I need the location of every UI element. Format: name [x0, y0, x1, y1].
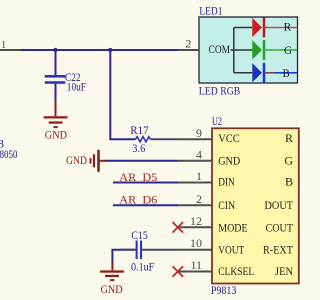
wire: main net to LED1 COM: [21, 49, 179, 51]
svg-text:G: G: [284, 154, 293, 168]
LED green element: [252, 40, 297, 60]
wire: down to C22: [55, 50, 57, 76]
svg-text:C15: C15: [131, 228, 147, 242]
LED blue element: [252, 63, 297, 83]
svg-text:GND: GND: [45, 128, 67, 142]
IC U2 P9813 body: [211, 114, 299, 297]
svg-text:P9813: P9813: [211, 283, 236, 297]
capacitor C22: [45, 70, 86, 93]
pin 1 DIN stub: [178, 169, 212, 183]
ground GND below C22: [44, 101, 68, 142]
wire: C15 left lead to ground corner: [112, 250, 135, 263]
pin 11 CLKSEL stub: [178, 258, 212, 272]
svg-text:R: R: [284, 20, 292, 34]
LED red element: [252, 17, 297, 37]
svg-text:2: 2: [185, 37, 191, 51]
svg-text:8050: 8050: [0, 147, 18, 161]
svg-text:COUT: COUT: [266, 220, 294, 234]
svg-text:LED RGB: LED RGB: [199, 84, 241, 98]
pin 12 MODE stub: [178, 214, 212, 228]
svg-text:1: 1: [196, 169, 202, 183]
svg-text:JEN: JEN: [275, 264, 293, 278]
wire: C22 to ground: [55, 84, 57, 101]
svg-text:1: 1: [1, 40, 6, 51]
wire: ground to pin 4: [105, 160, 178, 162]
pin 9 VCC stub: [178, 126, 212, 140]
svg-text:R: R: [285, 131, 293, 145]
capacitor C15: [131, 228, 155, 273]
no-ERC marker at pin 12: [173, 222, 184, 233]
wire: R17 to pin 9: [151, 138, 179, 140]
svg-text:B: B: [283, 66, 290, 80]
wire: AR_D5 to pin 1: [113, 182, 178, 184]
ground GND below C15: [100, 262, 124, 296]
svg-text:CLKSEL: CLKSEL: [218, 264, 254, 278]
svg-text:R-EXT: R-EXT: [263, 243, 294, 257]
svg-text:11: 11: [190, 258, 202, 272]
pin 10 VOUT stub: [178, 236, 212, 250]
pin 4 GND stub: [178, 147, 212, 161]
svg-text:12: 12: [190, 214, 202, 228]
pin 2 CIN stub: [178, 192, 212, 206]
svg-text:4: 4: [196, 147, 202, 161]
wire: from junction down and right to R17: [110, 50, 135, 139]
svg-text:G: G: [284, 43, 292, 57]
pin 1 of off-screen component at left edge: [0, 40, 22, 51]
svg-text:VOUT: VOUT: [218, 243, 245, 257]
svg-text:LED1: LED1: [199, 4, 222, 18]
wire: AR_D6 to pin 2: [113, 204, 178, 206]
svg-text:B: B: [285, 174, 293, 188]
LED LED1 body: [199, 4, 298, 98]
svg-text:GND: GND: [66, 153, 87, 167]
svg-text:9: 9: [196, 126, 202, 140]
wire: C15 right lead to pin 10: [142, 249, 178, 251]
svg-text:VCC: VCC: [218, 131, 240, 145]
pin 2 COM stub: [179, 37, 200, 51]
svg-text:U2: U2: [212, 114, 222, 128]
ground GND at pin 4 (rotated): [66, 150, 106, 172]
wire: COM bus and branches: [231, 28, 253, 73]
junction at C22 tap: [53, 48, 57, 52]
svg-text:10: 10: [190, 236, 202, 250]
junction at R17 tap: [108, 48, 112, 52]
svg-text:GND: GND: [218, 154, 240, 168]
svg-text:GND: GND: [101, 282, 123, 296]
svg-text:DIN: DIN: [218, 174, 235, 188]
no-ERC marker at pin 11: [173, 266, 184, 277]
svg-text:CIN: CIN: [218, 198, 235, 212]
svg-text:DOUT: DOUT: [265, 198, 294, 212]
svg-text:3.6: 3.6: [132, 141, 145, 155]
svg-text:2: 2: [196, 192, 202, 206]
svg-text:10uF: 10uF: [67, 79, 86, 93]
svg-text:0.1uF: 0.1uF: [131, 259, 155, 273]
svg-text:COM: COM: [209, 42, 231, 56]
svg-text:R17: R17: [130, 123, 148, 137]
resistor R17: [130, 123, 150, 155]
svg-text:MODE: MODE: [218, 220, 247, 234]
